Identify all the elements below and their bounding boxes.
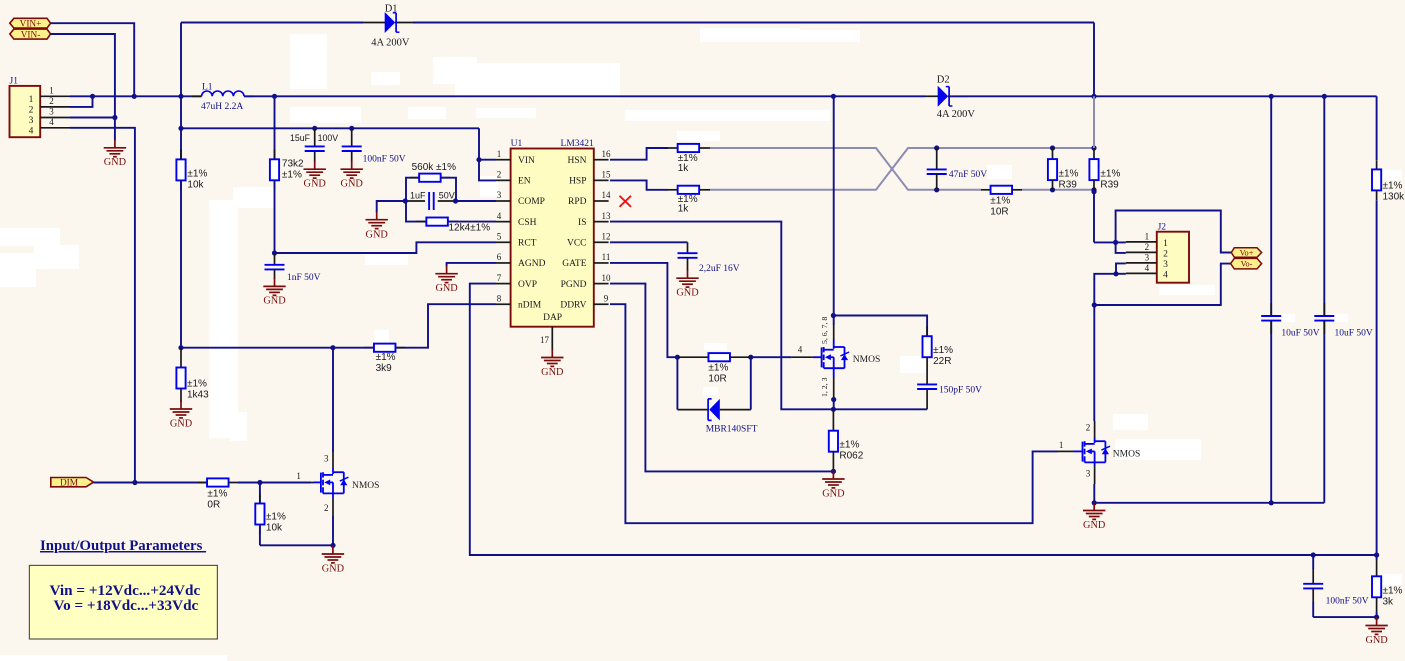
svg-text:VCC: VCC (567, 239, 587, 249)
wire nDIM divider node rail (181, 347, 374, 349)
U1 pin 10 PGND (594, 283, 609, 285)
svg-text:AGND: AGND (518, 259, 546, 269)
capacitor 100nF input (351, 128, 353, 146)
svg-text:13: 13 (602, 211, 612, 221)
ground GND COMP (376, 211, 378, 220)
svg-text:22R: 22R (933, 356, 951, 367)
svg-text:PGND: PGND (561, 280, 587, 290)
capacitor 47nF (934, 145, 939, 150)
svg-text:GND: GND (1365, 635, 1388, 646)
U1 pin 16 HSN (594, 159, 609, 161)
wire VCC pin12 (610, 241, 688, 243)
wire DDRV pin9 to dim FET gate (610, 304, 1058, 523)
wire 10k down to nDIM divider node (180, 180, 182, 347)
connector J1 (10, 86, 41, 137)
svg-text:VIN: VIN (518, 156, 535, 166)
wire GATE pin11 (610, 263, 677, 357)
wire gate resistor to NMOS gate (751, 356, 792, 358)
svg-text:4: 4 (49, 117, 54, 127)
svg-text:EN: EN (518, 177, 531, 187)
U1 pin 9 DDRV (594, 303, 609, 305)
resistor 10k dim pulldown (259, 483, 261, 504)
svg-text:±1%: ±1% (1059, 168, 1079, 179)
svg-text:14: 14 (602, 190, 612, 200)
svg-text:10R: 10R (708, 373, 726, 384)
resistor 1k lower (668, 189, 678, 191)
resistor 22R snubber (926, 326, 928, 336)
svg-text:MBR140SFT: MBR140SFT (706, 424, 758, 434)
svg-text:12k4±1%: 12k4±1% (449, 223, 491, 234)
resistor 3k9 (364, 347, 374, 349)
svg-text:5: 5 (497, 232, 502, 242)
capacitor 100nF ovp (1312, 555, 1314, 569)
svg-text:R062: R062 (839, 451, 863, 462)
grey net bottom rail segments (937, 189, 981, 191)
capacitor 1nF (274, 253, 276, 265)
svg-text:3: 3 (1086, 469, 1091, 479)
svg-text:HSP: HSP (569, 177, 586, 187)
svg-text:5, 6, 7, 8: 5, 6, 7, 8 (820, 317, 829, 344)
U1 pin 5 RCT (496, 241, 511, 243)
svg-text:VIN+: VIN+ (20, 20, 42, 30)
wire snubber branch (833, 316, 927, 337)
svg-text:D2: D2 (937, 74, 950, 85)
svg-text:GATE: GATE (562, 259, 586, 269)
svg-text:8: 8 (497, 293, 502, 303)
J2 pin 3 (1126, 262, 1157, 264)
svg-text:OVP: OVP (518, 280, 537, 290)
grey net bottom rail right (1022, 189, 1094, 191)
svg-text:GND: GND (104, 157, 127, 168)
resistor R062 current sense (832, 409, 834, 430)
grey net lower with crossover (710, 148, 937, 190)
svg-text:4A 200V: 4A 200V (371, 37, 410, 48)
J2 pin 2 (1126, 251, 1157, 253)
svg-text:GND: GND (676, 288, 699, 299)
J1 pin 1 (40, 95, 70, 97)
diode D2 (938, 86, 949, 107)
svg-text:1, 2, 3: 1, 2, 3 (820, 377, 829, 397)
svg-text:Vo-: Vo- (1241, 260, 1253, 269)
ground GND J1 (114, 139, 116, 148)
svg-text:4: 4 (1145, 263, 1150, 273)
ground GND left NMOS (332, 546, 334, 555)
svg-text:4: 4 (497, 211, 502, 221)
inductor L1 (192, 95, 202, 97)
resistor 10R sense (981, 189, 991, 191)
svg-text:2: 2 (497, 170, 502, 180)
resistor R39 first (1050, 145, 1055, 150)
U1 pin 1 VIN (496, 159, 511, 161)
port VIN- (10, 29, 51, 39)
svg-text:3: 3 (1145, 253, 1150, 263)
port VIN+ (10, 18, 51, 28)
J2 pin 1 (1126, 241, 1157, 243)
U1 pin 14 RPD (594, 200, 609, 202)
wire right NMOS source down (1094, 462, 1096, 466)
svg-text:10R: 10R (990, 206, 1008, 217)
wire source rail to caps bottoms (1094, 502, 1324, 504)
svg-text:15uF: 15uF (290, 133, 311, 143)
svg-text:100nF 50V: 100nF 50V (363, 155, 406, 165)
svg-text:1: 1 (29, 95, 34, 105)
U1 pin 3 COMP (496, 200, 511, 202)
ground GND ovp divider (1376, 617, 1378, 626)
wire VIN bypass row (180, 96, 182, 159)
svg-text:DAP: DAP (543, 313, 562, 323)
port Vo+ (1231, 248, 1261, 258)
grey stub output rail to top rail (1093, 96, 1095, 148)
svg-text:47nF 50V: 47nF 50V (949, 170, 987, 180)
svg-text:1: 1 (49, 86, 54, 96)
svg-text:HSN: HSN (567, 156, 586, 166)
wire J2 pin4 connection (1116, 273, 1126, 275)
diode D1 (385, 12, 396, 33)
svg-text:±1%: ±1% (1383, 180, 1403, 191)
svg-text:4: 4 (798, 345, 803, 355)
wire COMP node to GND (377, 201, 406, 212)
svg-text:10: 10 (602, 273, 612, 283)
svg-text:47uH 2.2A: 47uH 2.2A (201, 102, 243, 112)
svg-text:GND: GND (366, 229, 389, 240)
svg-text:±1%: ±1% (1383, 586, 1403, 597)
svg-text:GND: GND (322, 564, 345, 575)
svg-text:U1: U1 (511, 139, 523, 149)
grey net upper with crossover (710, 148, 937, 190)
transistor Q NMOS right (1058, 450, 1074, 452)
wire Vo- loop (1094, 264, 1230, 305)
wire OVP rail to 3k (1376, 555, 1378, 560)
parameters box (29, 565, 217, 639)
svg-text:3: 3 (29, 116, 34, 126)
svg-text:50V: 50V (439, 190, 455, 200)
wire 73k2 from rail (274, 96, 276, 159)
J1 pin 2 (40, 106, 70, 108)
U1 pin 2 EN (496, 179, 511, 181)
wire output rail down right edge (1376, 96, 1378, 160)
svg-text:±1%: ±1% (1100, 168, 1120, 179)
U1 pin 12 VCC (594, 241, 609, 243)
svg-text:6: 6 (497, 252, 502, 262)
svg-text:GND: GND (1083, 520, 1106, 531)
wire J2 pin3 connection (1116, 263, 1126, 273)
svg-text:NMOS: NMOS (352, 481, 379, 491)
wire D1 cathode down to output rail (1093, 23, 1095, 97)
ground GND R062 (832, 471, 834, 480)
svg-text:±1%: ±1% (990, 195, 1010, 206)
svg-text:1: 1 (497, 149, 502, 159)
svg-text:0R: 0R (207, 500, 220, 511)
svg-text:RCT: RCT (518, 239, 537, 249)
resistor 12k4 (416, 221, 426, 223)
svg-text:COMP: COMP (518, 197, 545, 207)
svg-text:CSH: CSH (518, 218, 537, 228)
wire nDIM pin8 to 3k9 (396, 304, 496, 348)
wire D2 pins (925, 95, 938, 97)
svg-text:±1%: ±1% (266, 511, 286, 522)
svg-text:4A 200V: 4A 200V (937, 109, 976, 120)
U1 pin 8 nDIM (496, 303, 511, 305)
wire PGND pin10 (610, 284, 833, 472)
svg-text:11: 11 (602, 252, 611, 262)
resistor 10R gate (677, 356, 708, 358)
no-connect X on RPD pin 14 (620, 196, 632, 207)
svg-text:GND: GND (341, 178, 364, 189)
svg-text:R39: R39 (1059, 179, 1078, 190)
wire VIN+ rail to D1 top line (180, 23, 182, 97)
svg-text:16: 16 (602, 149, 612, 159)
junction dots COMP (403, 198, 408, 203)
svg-text:±1%: ±1% (187, 168, 207, 179)
svg-text:±1%: ±1% (207, 489, 227, 500)
wire source rail to 150pF (833, 408, 927, 410)
J1 pin 4 (40, 127, 70, 129)
wire 10k to GND rail (260, 544, 333, 546)
svg-text:3k: 3k (1383, 597, 1395, 608)
resistor 0R (198, 482, 207, 484)
svg-text:100V: 100V (318, 133, 339, 143)
wire IS pin13 down to source rail (610, 222, 833, 410)
svg-text:GND: GND (170, 418, 193, 429)
wire 73k2 to RCT node (274, 180, 276, 253)
svg-text:NMOS: NMOS (1113, 449, 1140, 459)
svg-text:D1: D1 (385, 3, 398, 14)
svg-text:GND: GND (541, 367, 564, 378)
svg-text:17: 17 (540, 335, 550, 345)
svg-text:3: 3 (1163, 260, 1168, 270)
ground GND 100nF input (351, 161, 353, 170)
wire 100nF bottom to 3k bottom (1313, 616, 1376, 618)
resistor 130k (1376, 160, 1378, 169)
transistor Q NMOS left (311, 482, 314, 484)
ground GND 15uF (314, 161, 316, 170)
ground GND 1nF (274, 278, 276, 287)
wire left NMOS source (332, 493, 334, 497)
svg-text:2,2uF 16V: 2,2uF 16V (699, 264, 740, 274)
svg-text:Vo = +18Vdc...+33Vdc: Vo = +18Vdc...+33Vdc (54, 597, 199, 614)
wire DIM to 0R (94, 482, 208, 484)
svg-text:±1%: ±1% (187, 378, 207, 389)
U1 pin 11 GATE (594, 262, 609, 264)
ground GND 2.2uF (687, 270, 689, 279)
svg-text:560k ±1%: 560k ±1% (412, 162, 457, 173)
svg-text:GND: GND (263, 296, 286, 307)
svg-text:LM3421: LM3421 (561, 139, 595, 149)
svg-text:73k2: 73k2 (282, 159, 304, 170)
wire VIN- flag (51, 34, 115, 141)
ground GND AGND (446, 265, 448, 274)
svg-text:3k9: 3k9 (376, 363, 393, 374)
wire VIN+ flag (51, 23, 135, 96)
svg-text:2: 2 (29, 106, 34, 116)
wire NMOS source down (833, 368, 835, 378)
wire 12k4 right to CSH pin (448, 221, 496, 223)
svg-text:10k: 10k (187, 179, 204, 190)
svg-text:±1%: ±1% (933, 345, 953, 356)
svg-text:2: 2 (324, 503, 329, 513)
svg-text:GND: GND (822, 489, 845, 500)
svg-text:1: 1 (296, 471, 301, 481)
svg-text:1: 1 (1145, 232, 1150, 242)
svg-text:150pF 50V: 150pF 50V (939, 386, 982, 396)
ground GND right NMOS (1093, 502, 1095, 511)
wire 130k down to OVP rail (1376, 200, 1378, 555)
svg-text:1k: 1k (678, 163, 690, 174)
svg-text:DDRV: DDRV (560, 300, 586, 310)
capacitor 10uF first (1270, 96, 1272, 316)
svg-text:10k: 10k (266, 522, 283, 533)
svg-text:±1%: ±1% (282, 170, 302, 181)
svg-text:GND: GND (304, 178, 327, 189)
resistor 3k (1372, 576, 1381, 597)
svg-text:4: 4 (1163, 270, 1168, 280)
diode MBR140SFT branch (676, 357, 678, 409)
svg-text:2: 2 (1145, 242, 1150, 252)
capacitor 2.2uF (687, 242, 689, 253)
wire Vo+ loop (1116, 211, 1232, 253)
svg-text:1k43: 1k43 (187, 389, 209, 400)
svg-text:2: 2 (1163, 249, 1168, 259)
wire J1 pin3 to GND (70, 117, 115, 119)
wire AGND pin6 to ground (447, 263, 496, 266)
wire 12k4 to CSH (406, 201, 426, 222)
junction dots gate resistor (675, 355, 680, 360)
svg-text:3: 3 (324, 454, 329, 464)
wire main rail L1 to D2 (244, 95, 925, 97)
svg-text:1k: 1k (678, 204, 690, 215)
wire main rail left of L1 (70, 95, 202, 97)
resistor R39 second (1091, 145, 1096, 150)
ground GND DAP (551, 349, 553, 358)
wire 0R to gate (238, 482, 311, 484)
svg-text:VIN-: VIN- (21, 30, 41, 40)
grey net top rail (937, 147, 1094, 149)
svg-text:IS: IS (578, 218, 586, 228)
svg-text:±1%: ±1% (708, 362, 728, 373)
capacitor 15uF (314, 128, 316, 146)
wire NMOS drain up to rail (833, 339, 835, 347)
U1 pin 17 DAP (551, 327, 553, 350)
svg-text:10uF 50V: 10uF 50V (1335, 329, 1373, 339)
U1 pin 7 OVP (496, 283, 511, 285)
svg-text:12: 12 (602, 232, 611, 242)
resistor 10k top (180, 149, 182, 159)
junction dots input rail (90, 94, 95, 99)
svg-text:3: 3 (497, 190, 502, 200)
svg-text:3: 3 (49, 107, 54, 117)
svg-text:Vo+: Vo+ (1240, 249, 1254, 258)
wire right NMOS drain up (1094, 437, 1096, 441)
wire D1 pins (363, 22, 385, 24)
svg-text:DIM: DIM (60, 479, 78, 489)
U1 pin 13 IS (594, 221, 609, 223)
svg-text:±1%: ±1% (376, 352, 396, 363)
capacitor 1uF series (438, 200, 456, 202)
wire HSP pin15 (610, 180, 668, 189)
wire bottom grey rail to J2 pin1 (1093, 190, 1095, 243)
op-amp U1 LM3421 body (511, 149, 594, 327)
wire HSN pin16 (610, 148, 668, 160)
svg-text:2: 2 (49, 96, 54, 106)
svg-text:10uF 50V: 10uF 50V (1281, 329, 1319, 339)
J2 pin 4 (1126, 272, 1157, 274)
resistor 560k parallel (406, 178, 420, 201)
wire J1 pin2 to pin1 net (70, 96, 93, 107)
wire left NMOS drain (332, 468, 334, 472)
svg-text:7: 7 (497, 273, 502, 283)
capacitor 10uF second (1323, 96, 1325, 316)
svg-text:Input/Output Parameters: Input/Output Parameters (40, 538, 206, 554)
wire J2 pin1 connection (1094, 241, 1126, 243)
ground GND 1k43 (180, 401, 182, 410)
U1 pin 6 AGND (496, 262, 511, 264)
wire to U1 VIN/EN pins (479, 128, 496, 180)
resistor 73k2 (274, 149, 276, 159)
svg-text:RPD: RPD (568, 197, 587, 207)
svg-text:1: 1 (1059, 440, 1064, 450)
svg-text:nDIM: nDIM (518, 300, 542, 310)
svg-text:J2: J2 (1158, 222, 1167, 232)
wire output rail (948, 95, 1377, 97)
J1 pin 3 (40, 117, 70, 119)
wire COMP pin to node B (456, 200, 497, 202)
svg-text:15: 15 (602, 170, 612, 180)
svg-text:GND: GND (435, 283, 458, 294)
U1 pin 15 HSP (594, 179, 609, 181)
resistor 1k upper (668, 147, 678, 149)
resistor 1k43 (180, 348, 182, 368)
svg-text:100nF 50V: 100nF 50V (1326, 596, 1369, 606)
svg-text:1uF: 1uF (410, 190, 426, 200)
port Vo- (1231, 258, 1262, 269)
wire J1 pin4 DIM net down (70, 128, 135, 483)
wire J2 pin2 connection (1116, 242, 1126, 253)
U1 pin 4 CSH (496, 221, 511, 223)
wire 22R to 150pF (926, 357, 928, 384)
port DIM (51, 478, 94, 487)
svg-text:L1: L1 (202, 83, 213, 93)
svg-text:1: 1 (1163, 239, 1168, 249)
transistor Q NMOS middle (792, 356, 813, 358)
capacitor 150pF (917, 383, 937, 385)
svg-text:±1%: ±1% (839, 440, 859, 451)
svg-text:4: 4 (29, 127, 34, 137)
wire RCT (275, 242, 497, 253)
svg-text:9: 9 (604, 293, 609, 303)
svg-text:2: 2 (1086, 422, 1091, 432)
svg-text:1nF 50V: 1nF 50V (287, 273, 321, 283)
svg-text:R39: R39 (1100, 179, 1119, 190)
wire OVP pin7 down and across (470, 284, 1377, 555)
svg-text:130k: 130k (1383, 191, 1405, 202)
svg-text:NMOS: NMOS (853, 355, 880, 365)
white patches (290, 34, 327, 89)
connector J2 (1157, 232, 1189, 283)
svg-text:J1: J1 (10, 77, 19, 87)
